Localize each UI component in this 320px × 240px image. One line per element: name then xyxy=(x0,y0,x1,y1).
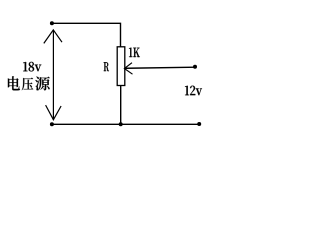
wire: top rail from node A to corner above potentiometer xyxy=(52,23,121,47)
value label 1K xyxy=(129,48,140,57)
node B: bottom-left junction dot xyxy=(50,122,54,126)
label 12v (output voltage) xyxy=(185,86,202,95)
node C: wiper output terminal dot xyxy=(193,65,197,69)
potentiometer R body xyxy=(117,47,125,86)
label char 源 (of 电压源 voltage source) xyxy=(35,77,50,91)
wire: potentiometer bottom lead down to bottom rail xyxy=(120,86,122,125)
wire: wiper output line to node C xyxy=(125,67,195,68)
potentiometer wiper arrowhead xyxy=(124,63,132,74)
node A: top-left junction dot xyxy=(50,21,54,25)
label char 电 (of 电压源 voltage source) xyxy=(8,76,20,90)
voltage source arrow (double-headed, 18v across rails) xyxy=(44,30,62,120)
wire: bottom rail xyxy=(52,123,199,125)
value label 18v (source voltage) xyxy=(23,62,41,71)
junction: potentiometer lead to bottom rail xyxy=(119,122,123,126)
label R (potentiometer designator) xyxy=(104,62,109,71)
label char 压 (of 电压源 voltage source) xyxy=(22,78,33,91)
node D: bottom-right terminal dot xyxy=(197,122,201,126)
